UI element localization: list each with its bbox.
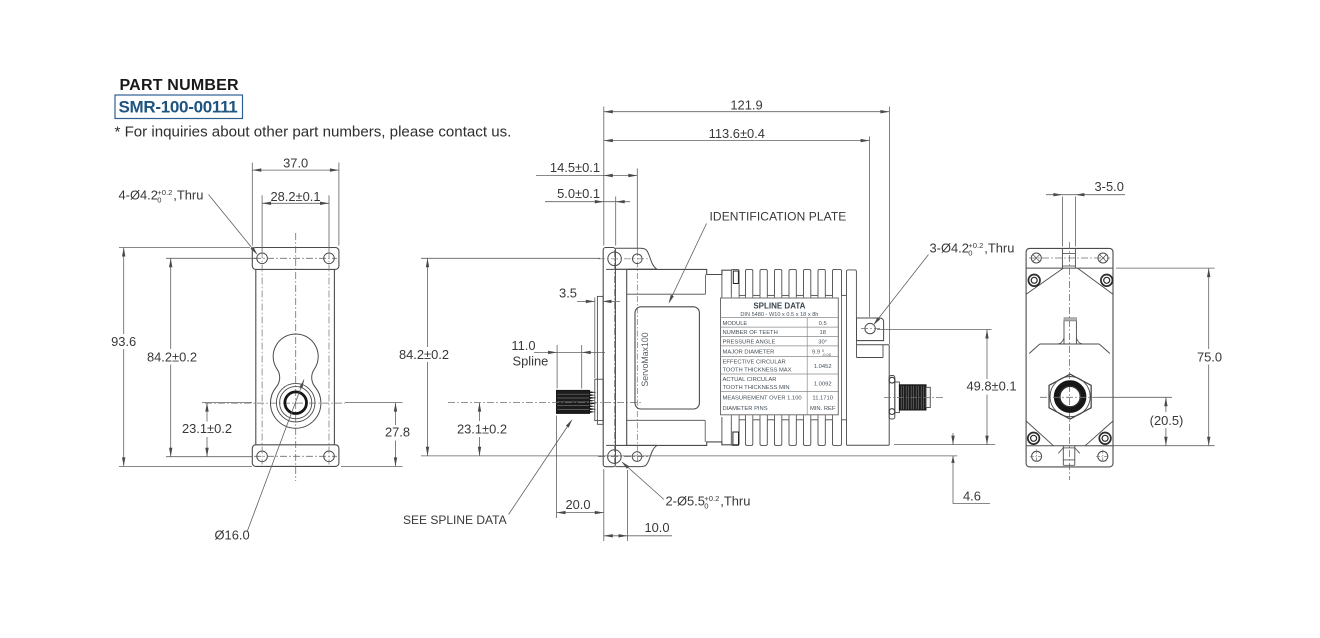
dim 28.2±0.1 (hole spacing) <box>261 195 263 251</box>
svg-text:0: 0 <box>704 502 708 511</box>
left view: top-right mounting hole (Ø4.2) <box>324 253 335 264</box>
left view: vertical centerline <box>295 233 297 481</box>
svg-text:11.0: 11.0 <box>511 338 535 353</box>
middle view: rear tab with hole <box>857 318 884 341</box>
svg-text:27.8: 27.8 <box>385 424 410 439</box>
svg-text:11.1710: 11.1710 <box>812 396 833 402</box>
right view: outer flange rect <box>1026 248 1113 467</box>
middle view: fin notch dark bottom <box>733 432 739 445</box>
middle view: shaft centerline <box>448 402 641 404</box>
svg-text:,Thru: ,Thru <box>720 494 750 509</box>
right view: top holes centerline <box>1029 257 1110 259</box>
left view: spline shaft dark ring <box>285 392 307 414</box>
svg-text:Ø16.0: Ø16.0 <box>215 528 250 543</box>
middle view: top ear flange hole (Ø5.5) <box>608 252 622 266</box>
middle view: rear housing front face / wide fin <box>847 270 857 446</box>
extension line: body rear face up <box>869 137 871 318</box>
leader for 4-Ø4.2 <box>209 195 257 254</box>
middle view: top ear hole (Ø4.2) <box>633 254 643 264</box>
svg-text:14.5±0.1: 14.5±0.1 <box>550 160 600 175</box>
middle view: bottom ear top edge <box>606 444 657 446</box>
svg-text:1.0452: 1.0452 <box>814 364 832 370</box>
svg-text:MIN. REF: MIN. REF <box>810 406 836 412</box>
svg-text:75.0: 75.0 <box>1197 349 1222 364</box>
middle view: connector centerline <box>884 397 944 399</box>
dim 3.5 <box>594 298 596 379</box>
left view: bottom-right mounting hole (Ø4.2) <box>324 451 335 462</box>
middle view: rear tab hole (Ø4.2) <box>865 323 875 333</box>
svg-text:DIN 5480 - W10 x 0.5 x 18 x 8h: DIN 5480 - W10 x 0.5 x 18 x 8h <box>740 312 818 318</box>
middle view: spline shaft tooth lines <box>557 393 589 395</box>
svg-text:1.0092: 1.0092 <box>814 381 832 387</box>
middle view: rear boss <box>888 345 890 445</box>
dim 121.9 (overall length) <box>604 111 890 113</box>
right view: bottom screw rings <box>1028 433 1040 445</box>
middle view: top ear holes centerline <box>598 258 650 260</box>
right view: connector hex nut (pointy top/bottom) <box>1049 374 1091 419</box>
leader for 3-Ø4.2 <box>875 255 929 324</box>
middle view: top ear bottom edge to body <box>606 268 657 270</box>
svg-text:ServoMax100: ServoMax100 <box>640 332 650 386</box>
svg-text:121.9: 121.9 <box>730 97 762 112</box>
dim 84.2±0.2 (left view hole span) <box>166 257 256 259</box>
middle view: shaft base boss <box>595 379 603 420</box>
svg-text:3-5.0: 3-5.0 <box>1095 179 1124 194</box>
dim 4.6 <box>952 433 954 445</box>
middle view: ear-hole vertical centerline <box>636 250 638 462</box>
leader for 2-Ø5.5 <box>623 463 665 500</box>
dim 10.0 <box>627 470 629 541</box>
long bottom-face extension line (left view) <box>119 465 252 467</box>
dim 23.1±0.2 (left view shaft to bottom holes) <box>202 402 252 404</box>
left view: shaft step circle <box>280 387 312 419</box>
svg-text:28.2±0.1: 28.2±0.1 <box>270 189 320 204</box>
spline data table <box>721 298 839 415</box>
svg-text:,Thru: ,Thru <box>173 188 203 203</box>
left view: top holes centerline <box>254 257 337 259</box>
right view: connector horizontal centerline <box>1040 396 1098 398</box>
left view: keyhole boss outline <box>271 334 321 428</box>
left view: web right edge <box>333 269 335 444</box>
right view: bottom tab <box>1062 446 1064 466</box>
dim 49.8±0.1 <box>877 329 992 331</box>
middle view: spline shaft body (dark) <box>557 390 590 413</box>
table column divider <box>806 318 808 415</box>
leader for identification plate <box>670 224 707 302</box>
svg-text:5.0±0.1: 5.0±0.1 <box>557 186 600 201</box>
middle view: fin valley lines <box>739 294 745 296</box>
svg-text:84.2±0.2: 84.2±0.2 <box>147 349 197 364</box>
left view: bottom-left mounting hole (Ø4.2) <box>257 451 268 462</box>
svg-text:TOOTH THICKNESS MIN: TOOTH THICKNESS MIN <box>723 385 790 391</box>
middle view: bottom ear holes centerline <box>598 456 650 458</box>
svg-text:* For inquiries about other pa: * For inquiries about other part numbers… <box>115 124 512 141</box>
svg-text:30°: 30° <box>818 340 827 346</box>
svg-text:,Thru: ,Thru <box>984 241 1014 256</box>
svg-text:PRESSURE ANGLE: PRESSURE ANGLE <box>723 340 776 346</box>
svg-text:37.0: 37.0 <box>283 156 308 171</box>
dim 93.6 (left view height) <box>119 247 250 249</box>
dim 3-5.0 (tab width) <box>1061 197 1063 247</box>
svg-text:ACTUAL CIRCULAR: ACTUAL CIRCULAR <box>723 377 777 383</box>
svg-text:MAJOR DIAMETER: MAJOR DIAMETER <box>723 350 775 356</box>
dim (20.5) connector height <box>1098 396 1172 398</box>
leader for see spline data <box>509 421 572 515</box>
svg-text:-0.05: -0.05 <box>822 352 831 357</box>
right view: top tab <box>1061 248 1063 268</box>
middle view: bottom ear outline <box>615 446 657 467</box>
svg-text:9.9: 9.9 <box>812 350 820 356</box>
extension line: ear hole centerline up <box>636 169 638 251</box>
left view: hole column centerlines <box>261 252 263 465</box>
left view: web left edge <box>255 269 257 444</box>
svg-text:0.5: 0.5 <box>819 321 827 327</box>
svg-text:84.2±0.2: 84.2±0.2 <box>399 347 449 362</box>
svg-text:4-Ø4.2: 4-Ø4.2 <box>119 188 158 203</box>
dim 27.8 (shaft to bottom face) <box>341 465 403 467</box>
left view: shaft horizontal centerline <box>205 402 345 404</box>
dim 5.0±0.1 <box>545 201 630 203</box>
left view: top-left mounting hole (Ø4.2) <box>257 253 268 264</box>
middle view: identification plate <box>635 307 699 409</box>
middle view: bottom ear hole (Ø4.2) <box>632 452 642 462</box>
right view: vertical centerline <box>1069 242 1071 480</box>
svg-text:20.0: 20.0 <box>565 497 590 512</box>
svg-text:49.8±0.1: 49.8±0.1 <box>966 379 1016 394</box>
extension line: rear-most face up <box>888 107 890 345</box>
middle view: bottom block top edge <box>627 419 706 421</box>
svg-text:0: 0 <box>968 249 972 258</box>
right view: bottom corner holes (Ø4.2 with cross) <box>1032 451 1042 461</box>
svg-text:3.5: 3.5 <box>559 286 577 301</box>
right view: bottom tab foot chamfers <box>1058 448 1063 453</box>
svg-text:MEASUREMENT OVER 1.100: MEASUREMENT OVER 1.100 <box>723 396 802 402</box>
middle view: gearbox face boss <box>597 296 603 424</box>
middle view: rear step lines <box>857 340 884 342</box>
middle view: fin notch dark top <box>733 271 738 284</box>
middle view: rear tab hole centerline <box>861 328 880 330</box>
right view: top screw rings <box>1028 275 1040 287</box>
right view: top chamfer diagonals <box>1026 268 1063 294</box>
extension line: flange rear face <box>615 197 617 246</box>
dim 20.0 <box>556 416 558 519</box>
left view: bottom flange band <box>252 445 339 467</box>
dim 11.0 Spline <box>556 345 558 389</box>
svg-text:0: 0 <box>157 196 161 205</box>
left view: top flange band <box>252 248 339 270</box>
right view: body bottom edge <box>1026 445 1113 447</box>
right view: body top edge <box>1026 267 1113 269</box>
middle view: cooling fins <box>731 269 739 295</box>
left view: bottom holes centerline <box>254 455 337 457</box>
svg-text:18: 18 <box>819 330 825 336</box>
middle view: connector threaded barrel (dark) <box>899 385 926 410</box>
right view: connector inner circle <box>1060 386 1080 406</box>
dim 14.5±0.1 <box>536 175 637 177</box>
svg-text:113.6±0.4: 113.6±0.4 <box>709 126 765 141</box>
svg-text:TOOTH THICKNESS MAX: TOOTH THICKNESS MAX <box>723 368 792 374</box>
svg-text:4.6: 4.6 <box>963 489 981 504</box>
middle view: body left edge <box>626 269 628 445</box>
right view: mid housing line with chamfers <box>1040 343 1099 345</box>
dim 75.0 (body height) <box>1116 267 1215 269</box>
svg-text:IDENTIFICATION PLATE: IDENTIFICATION PLATE <box>710 210 847 224</box>
right view: top corner holes (Ø4.2 with cross) <box>1031 253 1041 263</box>
middle view: tab sub-block <box>856 341 858 358</box>
middle view: spline teeth taper <box>589 391 596 393</box>
dim 113.6±0.4 <box>604 140 870 142</box>
right view: connector chamfer circle <box>1050 377 1090 417</box>
middle view: flange plate <box>603 248 615 467</box>
middle view: top ear outline <box>615 248 657 269</box>
right view: center chimney boss <box>1064 321 1076 344</box>
right view: connector dark thread ring <box>1057 383 1084 410</box>
middle view: top block bottom edge <box>627 293 706 295</box>
middle view: flange vertical centerline <box>614 250 616 464</box>
svg-text:93.6: 93.6 <box>111 334 136 349</box>
middle view: top raised block <box>627 269 732 274</box>
middle view: connector tip <box>926 387 930 407</box>
middle view: bottom ear flange hole (Ø5.5) <box>608 450 622 464</box>
dim 37.0 (left view width) <box>251 163 253 246</box>
svg-text:PART NUMBER: PART NUMBER <box>120 77 239 94</box>
left view: Ø16 boss circle <box>276 383 315 422</box>
middle view: connector mounting flange <box>889 376 895 420</box>
svg-text:MODULE: MODULE <box>723 321 748 327</box>
dim 23.1±0.2 (middle view) <box>479 403 481 421</box>
svg-text:23.1±0.2: 23.1±0.2 <box>182 421 232 436</box>
right view: bottom chamfer diagonals <box>1026 421 1053 446</box>
middle view: bottom raised block <box>627 442 732 446</box>
header: part number box <box>115 95 243 119</box>
svg-text:DIAMETER PINS: DIAMETER PINS <box>723 406 768 412</box>
svg-text:10.0: 10.0 <box>644 520 669 535</box>
svg-text:SMR-100-00111: SMR-100-00111 <box>119 98 238 117</box>
dim 84.2±0.2 (middle view) <box>421 257 600 259</box>
svg-text:3-Ø4.2: 3-Ø4.2 <box>930 241 969 256</box>
svg-text:(20.5): (20.5) <box>1150 413 1184 428</box>
middle view: connector neck <box>895 382 900 413</box>
svg-text:EFFECTIVE CIRCULAR: EFFECTIVE CIRCULAR <box>723 360 786 366</box>
long bottom holes centerline extension <box>421 455 957 457</box>
svg-text:SEE SPLINE DATA: SEE SPLINE DATA <box>403 513 507 527</box>
svg-text:23.1±0.2: 23.1±0.2 <box>457 422 507 437</box>
svg-text:NUMBER OF TEETH: NUMBER OF TEETH <box>723 330 778 336</box>
extension line: flange front face (up) <box>603 107 605 246</box>
svg-text:SPLINE DATA: SPLINE DATA <box>753 302 805 311</box>
leader for Ø16.0 <box>247 380 304 533</box>
svg-text:2-Ø5.5: 2-Ø5.5 <box>666 494 705 509</box>
middle view: connector flange screws <box>889 377 895 383</box>
svg-text:Spline: Spline <box>513 354 549 369</box>
